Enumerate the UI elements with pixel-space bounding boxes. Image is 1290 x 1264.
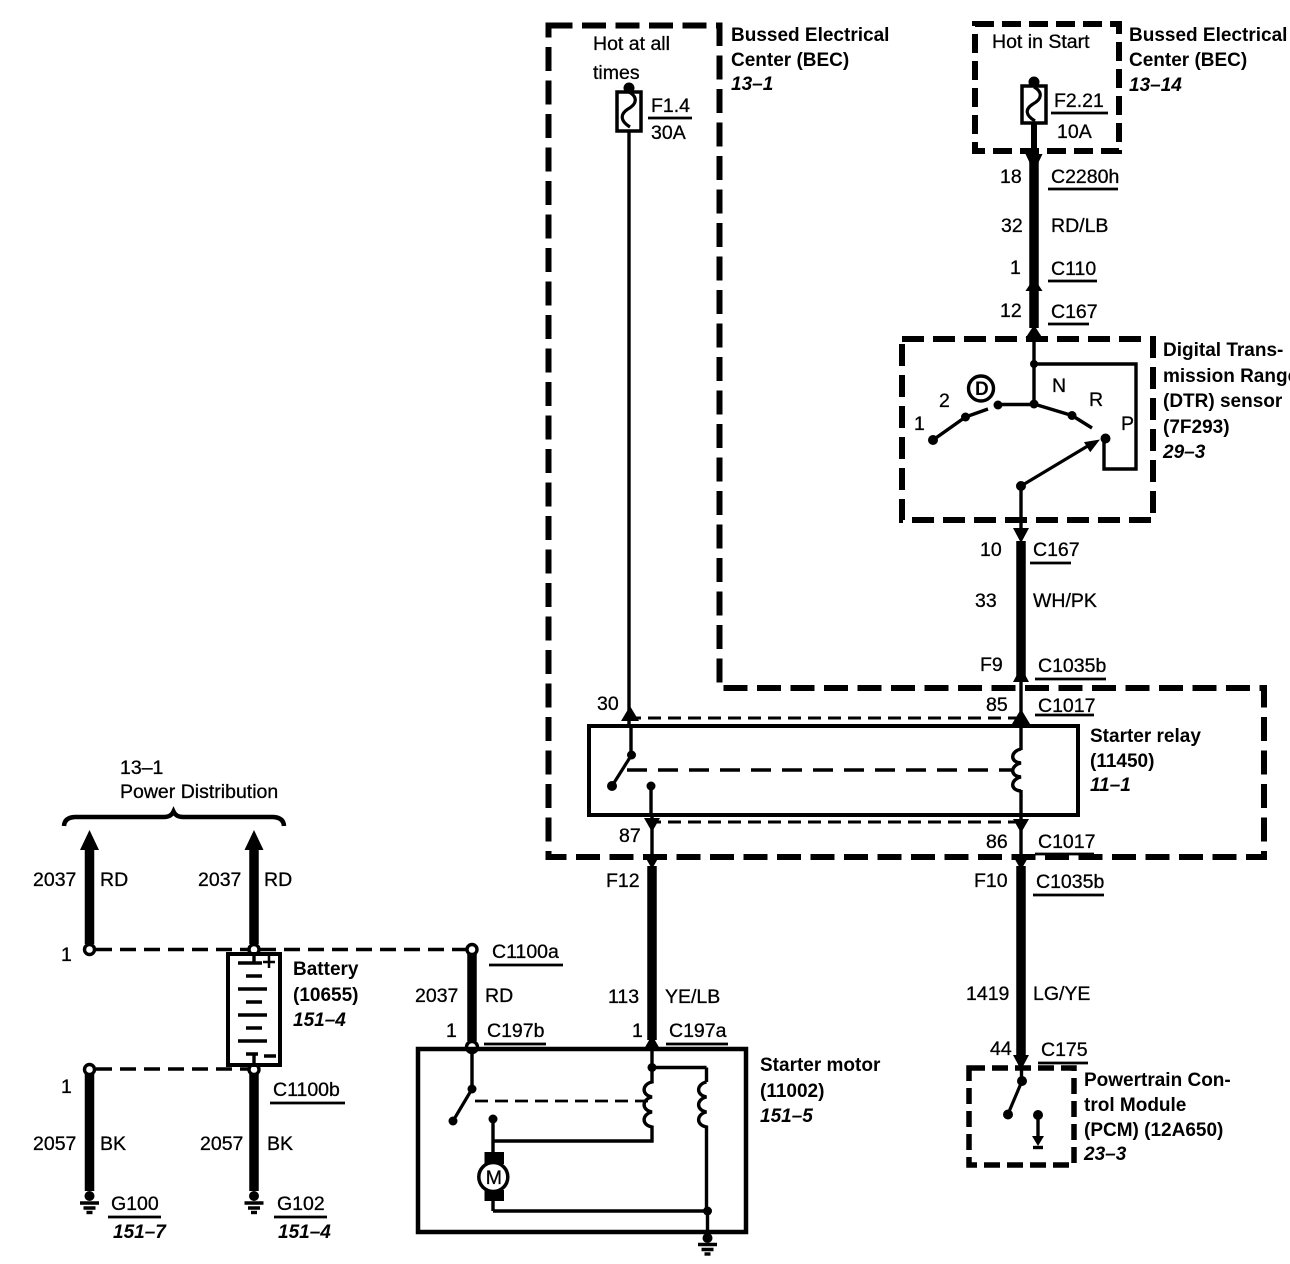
svg-text:M: M [486, 1167, 502, 1189]
svg-text:1: 1 [914, 413, 925, 435]
svg-text:Center (BEC): Center (BEC) [1129, 50, 1247, 71]
svg-text:1419: 1419 [966, 983, 1009, 1005]
svg-text:C175: C175 [1041, 1039, 1088, 1061]
svg-text:2037: 2037 [198, 869, 241, 891]
svg-text:23–3: 23–3 [1083, 1144, 1127, 1165]
svg-text:YE/LB: YE/LB [665, 986, 720, 1008]
svg-text:R: R [1089, 389, 1103, 411]
svg-text:Bussed Electrical: Bussed Electrical [1129, 25, 1287, 46]
svg-text:Hot at all: Hot at all [593, 33, 670, 55]
svg-text:F9: F9 [980, 654, 1003, 676]
svg-text:C167: C167 [1033, 539, 1080, 561]
svg-text:F2.21: F2.21 [1054, 90, 1104, 112]
svg-text:(10655): (10655) [293, 985, 359, 1006]
svg-text:(PCM) (12A650): (PCM) (12A650) [1084, 1120, 1223, 1141]
svg-text:2: 2 [939, 390, 950, 412]
svg-text:29–3: 29–3 [1162, 442, 1206, 463]
svg-text:BK: BK [267, 1133, 293, 1155]
svg-text:G102: G102 [277, 1193, 325, 1215]
svg-text:Powertrain Con-: Powertrain Con- [1084, 1070, 1231, 1091]
svg-text:mission Range: mission Range [1163, 366, 1290, 387]
svg-text:Center (BEC): Center (BEC) [731, 50, 849, 71]
svg-text:C197b: C197b [487, 1020, 545, 1042]
svg-text:11–1: 11–1 [1090, 775, 1131, 796]
svg-text:(11450): (11450) [1090, 751, 1154, 772]
svg-text:F10: F10 [974, 870, 1008, 892]
svg-text:(7F293): (7F293) [1163, 417, 1230, 438]
svg-text:30: 30 [597, 693, 619, 715]
svg-text:Hot in Start: Hot in Start [992, 31, 1090, 53]
svg-text:RD: RD [264, 869, 292, 891]
svg-text:2037: 2037 [33, 869, 76, 891]
svg-text:Bussed Electrical: Bussed Electrical [731, 25, 889, 46]
svg-text:Battery: Battery [293, 959, 359, 980]
svg-text:113: 113 [608, 986, 639, 1008]
svg-text:151–5: 151–5 [760, 1106, 813, 1127]
svg-text:1: 1 [61, 1076, 72, 1098]
svg-text:Starter relay: Starter relay [1090, 726, 1201, 747]
svg-text:1: 1 [446, 1020, 457, 1042]
svg-text:C110: C110 [1051, 258, 1096, 280]
svg-text:10: 10 [980, 539, 1002, 561]
svg-text:33: 33 [975, 590, 997, 612]
svg-text:RD: RD [100, 869, 128, 891]
svg-text:1: 1 [632, 1020, 643, 1042]
svg-text:F1.4: F1.4 [651, 95, 690, 117]
svg-text:2057: 2057 [33, 1133, 76, 1155]
svg-text:1: 1 [61, 944, 72, 966]
svg-text:times: times [593, 62, 640, 84]
svg-text:G100: G100 [111, 1193, 159, 1215]
svg-text:N: N [1052, 375, 1066, 397]
svg-text:87: 87 [619, 825, 641, 847]
svg-text:RD/LB: RD/LB [1051, 215, 1108, 237]
svg-text:WH/PK: WH/PK [1033, 590, 1097, 612]
svg-text:13–14: 13–14 [1129, 75, 1182, 96]
svg-text:151–7: 151–7 [113, 1222, 167, 1243]
svg-text:C167: C167 [1051, 301, 1098, 323]
svg-text:C1100b: C1100b [273, 1079, 340, 1101]
svg-text:P: P [1121, 413, 1134, 435]
svg-text:151–4: 151–4 [293, 1010, 346, 1031]
svg-text:151–4: 151–4 [278, 1222, 331, 1243]
svg-text:C1035b: C1035b [1036, 871, 1104, 893]
svg-text:C1100a: C1100a [492, 941, 559, 963]
svg-text:F12: F12 [606, 870, 640, 892]
svg-text:10A: 10A [1057, 121, 1092, 143]
svg-text:13–1: 13–1 [731, 74, 773, 95]
svg-text:44: 44 [990, 1038, 1012, 1060]
svg-text:trol Module: trol Module [1084, 1095, 1186, 1116]
svg-text:2057: 2057 [200, 1133, 243, 1155]
svg-text:2037: 2037 [415, 985, 458, 1007]
svg-text:BK: BK [100, 1133, 126, 1155]
svg-text:LG/YE: LG/YE [1033, 983, 1090, 1005]
svg-text:Power Distribution: Power Distribution [120, 781, 278, 803]
svg-text:18: 18 [1000, 166, 1022, 188]
svg-text:85: 85 [986, 694, 1008, 716]
svg-text:86: 86 [986, 831, 1008, 853]
svg-text:30A: 30A [651, 122, 686, 144]
svg-text:1: 1 [1010, 257, 1021, 279]
svg-text:13–1: 13–1 [120, 757, 163, 779]
svg-text:C2280h: C2280h [1051, 166, 1119, 188]
svg-text:C1017: C1017 [1038, 831, 1095, 853]
svg-text:12: 12 [1000, 300, 1022, 322]
svg-text:RD: RD [485, 985, 513, 1007]
svg-text:(11002): (11002) [760, 1081, 824, 1102]
svg-text:C197a: C197a [669, 1020, 727, 1042]
svg-text:C1035b: C1035b [1038, 655, 1106, 677]
svg-text:32: 32 [1001, 215, 1023, 237]
svg-text:(DTR) sensor: (DTR) sensor [1163, 391, 1283, 412]
svg-text:D: D [975, 379, 989, 400]
svg-text:Digital Trans-: Digital Trans- [1163, 340, 1283, 361]
svg-text:Starter motor: Starter motor [760, 1055, 881, 1076]
